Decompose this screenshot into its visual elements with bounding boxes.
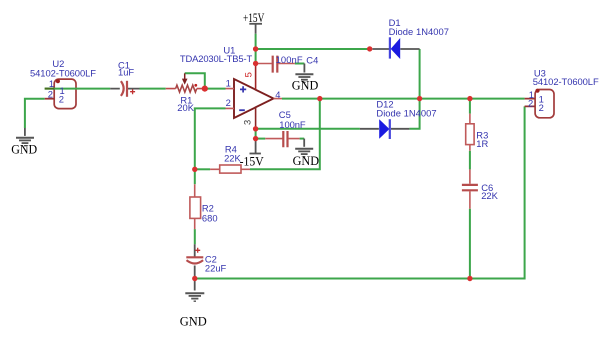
svg-text:2: 2 [539,102,544,113]
svg-text:GND: GND [293,154,320,168]
svg-text:GND: GND [180,314,207,328]
svg-text:2: 2 [528,97,533,108]
svg-text:5: 5 [243,72,254,77]
svg-text:-15V: -15V [240,154,264,168]
svg-text:4: 4 [275,89,280,100]
svg-text:20K: 20K [177,102,194,113]
svg-text:1: 1 [226,78,231,89]
svg-text:22uF: 22uF [205,262,227,273]
svg-text:3: 3 [242,120,253,125]
svg-text:TDA2030L-TB5-T: TDA2030L-TB5-T [180,53,253,64]
svg-text:2: 2 [48,89,53,100]
svg-text:54102-T0600LF: 54102-T0600LF [30,67,96,78]
svg-text:100nF: 100nF [279,119,306,130]
svg-text:1R: 1R [476,138,488,149]
svg-text:100nF: 100nF [276,54,303,65]
svg-text:C4: C4 [306,54,318,65]
svg-text:680: 680 [202,212,218,223]
svg-text:GND: GND [11,142,37,156]
svg-text:1uF: 1uF [118,67,134,78]
svg-text:54102-T0600LF: 54102-T0600LF [533,76,599,87]
svg-text:Diode 1N4007: Diode 1N4007 [376,107,436,118]
svg-text:2: 2 [59,93,64,104]
svg-text:GND: GND [292,78,319,92]
svg-text:+15V: +15V [243,12,264,26]
svg-text:2: 2 [226,97,231,108]
svg-text:Diode 1N4007: Diode 1N4007 [389,26,449,37]
svg-text:1: 1 [49,78,54,89]
svg-text:22K: 22K [481,190,498,201]
